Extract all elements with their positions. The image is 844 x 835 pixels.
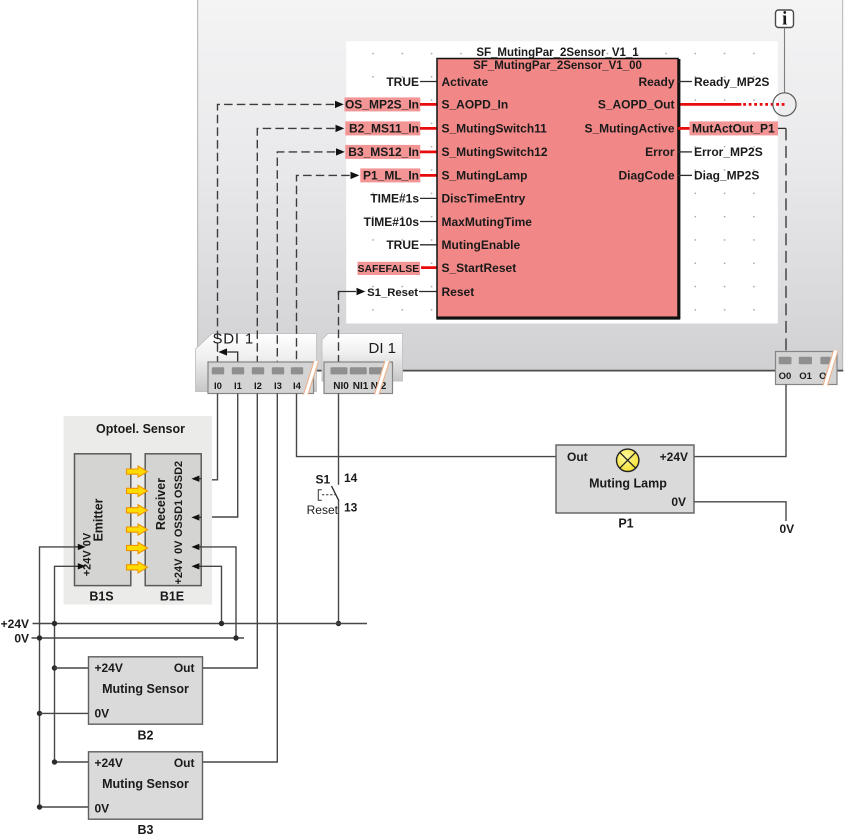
svg-text:B3_MS12_In: B3_MS12_In (348, 145, 419, 159)
svg-text:Error: Error (645, 145, 675, 159)
wire I1 to receiver OSSD1 (201, 394, 238, 518)
svg-text:O0: O0 (779, 371, 792, 382)
wire O0 down to muting lamp +24V (694, 385, 786, 457)
svg-text:TIME#10s: TIME#10s (364, 215, 420, 229)
svg-text:Out: Out (174, 756, 195, 770)
svg-text:MaxMutingTime: MaxMutingTime (442, 215, 533, 229)
node branch circle (773, 93, 796, 116)
arrow P1_ML_In (351, 172, 360, 179)
variable OS_MP2S_In (345, 97, 421, 111)
svg-text:Optoel. Sensor: Optoel. Sensor (96, 422, 185, 436)
wire P1_ML_In dashed (297, 175, 350, 362)
svg-text:MutingEnable: MutingEnable (442, 238, 521, 252)
svg-text:Out: Out (174, 661, 195, 675)
svg-text:S_MutingSwitch12: S_MutingSwitch12 (442, 145, 548, 159)
svg-text:TRUE: TRUE (386, 238, 419, 252)
svg-text:Diag_MP2S: Diag_MP2S (694, 169, 759, 183)
svg-text:Activate: Activate (442, 75, 489, 89)
svg-text:B3: B3 (138, 823, 154, 835)
wire Ready to Ready_MP2S (678, 81, 692, 83)
wire I2 to B2 Out (203, 394, 258, 669)
svg-text:B2_MS11_In: B2_MS11_In (349, 122, 419, 136)
emitter B1S (75, 454, 131, 586)
terminal block O outputs (776, 351, 839, 386)
controller panel (197, 0, 843, 371)
wire S1 to +24V rail (338, 501, 340, 624)
wire TIME#10s to MaxMutingTime (420, 221, 437, 223)
svg-text:P1: P1 (618, 517, 633, 531)
wire emitter 0V to 0V rail and B2/B3 (40, 547, 89, 807)
svg-text:S_StartReset: S_StartReset (442, 261, 517, 275)
wire SAFEFALSE to S_StartReset red (421, 266, 438, 269)
svg-text:13: 13 (344, 501, 358, 515)
white FBD canvas (346, 41, 778, 323)
wire I0 to receiver OSSD2 (201, 394, 217, 480)
pin labels right (584, 75, 674, 183)
variable B2_MS11_In (345, 121, 420, 135)
variable SAFEFALSE (358, 262, 421, 275)
svg-text:P1_ML_In: P1_ML_In (363, 169, 419, 183)
wire B3_MS12_In to S_MutingSwitch12 red (420, 150, 438, 153)
svg-text:I0: I0 (214, 381, 222, 392)
svg-text:O1: O1 (799, 371, 812, 382)
wire Error to Error_MP2S (678, 151, 692, 153)
svg-text:Error_MP2S: Error_MP2S (694, 145, 763, 159)
svg-text:OS_MP2S_In: OS_MP2S_In (345, 98, 419, 112)
svg-text:MutActOut_P1: MutActOut_P1 (692, 122, 775, 136)
svg-text:NI0: NI0 (333, 381, 349, 392)
svg-text:Muting Lamp: Muting Lamp (589, 477, 667, 491)
svg-text:0V: 0V (95, 801, 110, 815)
svg-text:SF_MutingPar_2Sensor_V1_00: SF_MutingPar_2Sensor_V1_00 (473, 60, 642, 72)
svg-text:Ready_MP2S: Ready_MP2S (694, 75, 769, 89)
wire TRUE to Activate (420, 81, 437, 83)
wire S_AOPD_Out solid red (678, 103, 741, 106)
wire B2 +24V (55, 667, 89, 669)
wire S1_Reset horizontal (339, 292, 357, 296)
svg-text:DiagCode: DiagCode (618, 169, 674, 183)
receiver B1E (145, 454, 201, 586)
svg-text:OSSD1: OSSD1 (173, 500, 185, 537)
wire B3_MS12_In dashed (277, 152, 335, 362)
svg-text:I3: I3 (274, 381, 282, 392)
+24V rail (33, 623, 368, 625)
svg-text:+24V: +24V (1, 617, 29, 631)
svg-text:SDI 1: SDI 1 (213, 331, 255, 348)
svg-text:0V: 0V (95, 706, 110, 720)
arrow into I0 wire (218, 348, 237, 362)
wire muting lamp 0V (694, 502, 786, 521)
svg-text:0V: 0V (780, 522, 795, 536)
svg-text:S_MutingLamp: S_MutingLamp (442, 169, 528, 183)
svg-text:+24V: +24V (173, 558, 185, 585)
svg-text:S1: S1 (316, 473, 331, 487)
svg-text:S_MutingActive: S_MutingActive (584, 122, 674, 136)
arrow B3_MS12_In (336, 148, 345, 155)
svg-text:Muting Sensor: Muting Sensor (102, 777, 189, 791)
connector housing SDI1 (196, 334, 317, 392)
function block U1 SF_MutingPar_2Sensor_V1_00 (436, 47, 680, 318)
wire emitter +24V to +24V rail and B2/B3 (55, 566, 89, 762)
svg-text:0V: 0V (671, 495, 686, 509)
svg-text:i: i (782, 10, 787, 30)
svg-text:0V: 0V (14, 631, 29, 645)
arrow B2_MS11_In (336, 125, 345, 132)
muting lamp P1 (556, 445, 694, 513)
pin labels left (442, 75, 548, 299)
optoelectronic sensor group B1 (64, 416, 213, 605)
wire NI0 to switch S1 (338, 394, 340, 485)
svg-text:B1S: B1S (89, 590, 113, 604)
muting sensor B2 (89, 657, 203, 724)
svg-text:Receiver: Receiver (154, 478, 168, 530)
svg-text:B1E: B1E (160, 590, 184, 604)
svg-text:S_MutingSwitch11: S_MutingSwitch11 (442, 122, 548, 136)
wire MutActOut_P1 to O0 dashed (778, 127, 786, 129)
wire OS_MP2S_In to S_AOPD_In red (420, 103, 438, 106)
0V rail (32, 637, 245, 639)
wire receiver 0V down to 0V rail (201, 547, 236, 638)
svg-text:SAFEFALSE: SAFEFALSE (357, 263, 419, 275)
svg-text:Muting Sensor: Muting Sensor (102, 682, 189, 696)
wire TRUE to MutingEnable (420, 244, 437, 246)
svg-text:I4: I4 (293, 381, 302, 392)
wire I3 to B3 Out (203, 394, 278, 763)
wire I4 to muting lamp Out (297, 394, 557, 457)
svg-text:+24V: +24V (660, 450, 688, 464)
wire TIME#1s to DiscTimeEntry (420, 197, 437, 199)
wire S1_Reset to Reset (419, 291, 437, 293)
svg-text:+24V: +24V (95, 661, 123, 675)
svg-text:+24V: +24V (82, 550, 94, 577)
svg-text:Out: Out (567, 450, 588, 464)
svg-text:0V: 0V (173, 540, 185, 554)
terminal block SDI1 (208, 361, 319, 395)
wire B2_MS11_In to S_MutingSwitch11 red (420, 127, 438, 130)
svg-text:OSSD2: OSSD2 (173, 461, 185, 498)
svg-text:SF_MutingPar_2Sensor_V1_1: SF_MutingPar_2Sensor_V1_1 (476, 47, 639, 59)
svg-text:Reset: Reset (307, 503, 339, 517)
terminal block DI1 (324, 361, 393, 395)
switch S1 (307, 471, 358, 517)
wire S1_Reset dashed (338, 292, 340, 363)
svg-text:+24V: +24V (95, 756, 123, 770)
variable P1_ML_In (360, 168, 420, 182)
svg-text:I2: I2 (254, 381, 262, 392)
wire from info icon to branch circle (784, 28, 786, 93)
svg-text:TIME#1s: TIME#1s (370, 192, 419, 206)
variable MutActOut_P1 (690, 121, 779, 135)
svg-text:NI1: NI1 (353, 381, 369, 392)
light beams emitter to receiver (127, 466, 148, 573)
svg-text:S_AOPD_In: S_AOPD_In (442, 98, 509, 112)
wire DiagCode to Diag_MP2S (678, 174, 692, 176)
svg-text:Reset: Reset (442, 285, 475, 299)
svg-text:Emitter: Emitter (92, 498, 106, 541)
svg-text:DI 1: DI 1 (369, 340, 397, 357)
wire OS_MP2S_In dashed (218, 104, 335, 362)
connector housing DI1 (322, 334, 403, 382)
svg-text:I1: I1 (234, 381, 243, 392)
info icon (776, 10, 794, 30)
wire S_AOPD_Out dotted red (743, 103, 786, 106)
wire B2 0V (40, 712, 89, 714)
wire B2_MS11_In dashed (257, 128, 334, 362)
svg-text:DiscTimeEntry: DiscTimeEntry (442, 192, 526, 206)
junction nodes (37, 621, 239, 810)
svg-text:S_AOPD_Out: S_AOPD_Out (598, 98, 675, 112)
svg-text:0V: 0V (82, 532, 94, 546)
variable B3_MS12_In (345, 145, 420, 159)
svg-text:14: 14 (344, 471, 358, 485)
wire S_MutingActive to MutActOut_P1 red (678, 127, 690, 130)
svg-text:S1_Reset: S1_Reset (367, 287, 418, 299)
wire receiver +24V down to +24V rail (201, 566, 221, 623)
svg-text:B2: B2 (138, 729, 154, 743)
arrow S1_Reset (357, 288, 366, 295)
wire P1_ML_In to S_MutingLamp red (420, 174, 438, 177)
muting sensor B3 (89, 752, 203, 819)
arrow OS_MP2S_In (335, 101, 344, 108)
svg-text:TRUE: TRUE (386, 75, 419, 89)
svg-text:Ready: Ready (638, 75, 674, 89)
